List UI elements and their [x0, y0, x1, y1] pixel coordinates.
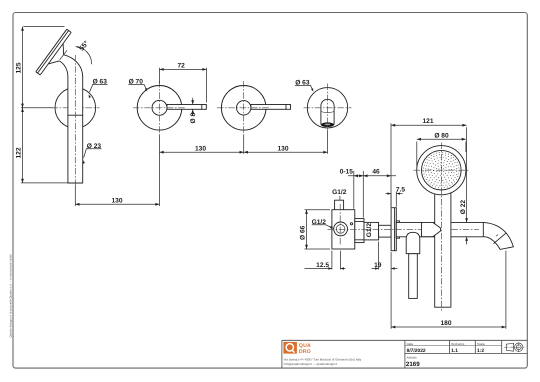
dimension Ø8 (lever bar): [190, 98, 197, 124]
dimension Ø80 (head): [417, 138, 466, 168]
label Ø70 with leader: [128, 79, 147, 92]
copyright note (vertical): [8, 254, 12, 337]
extension line middle (holder center): [21, 107, 53, 109]
shower head spray nozzle dots: [423, 152, 459, 188]
svg-text:0-15: 0-15: [340, 168, 354, 175]
dimension line 125: [21, 27, 24, 108]
label 46: [372, 168, 380, 175]
svg-text:122: 122: [15, 147, 22, 158]
centerline vertical pipe1: [74, 55, 76, 186]
head centerline horizontal: [414, 169, 470, 171]
wall bracket escutcheon Ø63 (circle): [55, 88, 96, 129]
svg-text:Scala: Scala: [477, 342, 485, 346]
extension flange up: [362, 171, 364, 218]
label 130 (a): [195, 146, 206, 153]
wall escutcheon plate (side): [391, 208, 396, 251]
diverter knob below pipe: [406, 232, 420, 298]
svg-text:46: 46: [372, 168, 380, 175]
svg-text:G1/2: G1/2: [332, 189, 347, 196]
label 0-15: [340, 168, 354, 175]
hand shower handle pipe Ø23: [68, 76, 83, 183]
valve handle escutcheon Ø70 (right): [221, 86, 266, 131]
label 122: [15, 147, 22, 158]
dimension line 180: [391, 326, 506, 329]
small screw circle on body: [350, 223, 352, 225]
svg-text:Data: Data: [407, 342, 414, 346]
dimension Ø22 (pipe): [460, 200, 468, 245]
dimension 12.5: [305, 251, 346, 270]
hand shower handle grip (side view): [435, 193, 451, 308]
svg-text:Ø 80: Ø 80: [434, 132, 449, 139]
label 55°: [78, 40, 90, 53]
dimension Ø66 (body/escutcheon): [299, 210, 330, 249]
label Ø23 with leader (handle): [83, 143, 102, 164]
label 121: [422, 118, 433, 125]
svg-text:Ø 8: Ø 8: [190, 113, 197, 124]
head and handle centerline: [441, 143, 443, 312]
shower head back cone: [48, 44, 63, 64]
svg-text:12.5: 12.5: [316, 262, 329, 269]
label G1/2 with leader (side inlet): [312, 219, 334, 229]
svg-text:info@quadrodesign.it — quadr: info@quadrodesign.it — quadrodesign.it: [284, 362, 338, 366]
logo text QUA DRO: [299, 343, 311, 355]
label Ø63 with leader (holder): [89, 79, 108, 98]
lever handle bar (right valve): [251, 105, 291, 110]
label 180: [440, 320, 451, 327]
connection sleeve: [379, 225, 392, 237]
label 125: [15, 62, 22, 73]
svg-text:180: 180: [440, 320, 451, 327]
label 72: [178, 63, 186, 70]
svg-text:Revisione: Revisione: [451, 342, 465, 346]
concealed valve body (side view): [332, 210, 355, 249]
svg-text:G1/2: G1/2: [366, 223, 373, 238]
extension body right face up: [353, 171, 355, 209]
angle dimension arc 55°: [60, 46, 92, 64]
dimension line 130 (holder to handle): [75, 203, 159, 206]
body inlet circle G1/2 (side face): [334, 222, 348, 236]
svg-text:1:2: 1:2: [477, 348, 484, 354]
extension spout tip down: [505, 251, 507, 329]
centerline horizontal circle1: [52, 107, 100, 109]
svg-text:7.5: 7.5: [396, 187, 405, 194]
spout joint line (vertical): [482, 222, 484, 236]
extension line bottom (handle end): [21, 182, 68, 184]
svg-text:125: 125: [15, 62, 22, 73]
holder neck and elbow (curved pipe): [59, 55, 82, 77]
dimension line 130 (handle to handle): [160, 151, 244, 154]
title block borders: [282, 340, 527, 368]
label 130 (c): [112, 198, 123, 205]
pipe collar at wall plate: [396, 221, 399, 238]
svg-text:2169: 2169: [406, 361, 420, 368]
hand shower head plate (front view, tilted disc): [36, 29, 71, 75]
label 12.5: [316, 262, 329, 269]
spout pipe and curved spout outline: [396, 222, 513, 249]
extension pipe1 down: [74, 186, 76, 207]
label Ø63 with leader (spout): [295, 80, 313, 92]
extension circle2 down: [159, 135, 161, 207]
logo QUADRO orange square: [283, 342, 297, 354]
svg-text:8/7/2022: 8/7/2022: [407, 348, 426, 354]
label 130 (b): [278, 146, 289, 153]
extension circle4 down: [327, 131, 329, 154]
title block headers: [407, 342, 485, 360]
centerlines circle2: [133, 81, 186, 135]
extension line at x=466.6 (head edge / pipe): [466, 127, 468, 222]
dimension 72 (lever length): [160, 68, 207, 103]
dimension line 122: [21, 108, 24, 183]
svg-text:Via Bonazzi 44 40057 San Maur: Via Bonazzi 44 40057 San Maurizio di Gra…: [284, 357, 362, 361]
svg-text:130: 130: [278, 146, 289, 153]
svg-text:121: 121: [422, 118, 433, 125]
extension wall plate down: [390, 252, 392, 329]
svg-text:1.1: 1.1: [451, 348, 458, 354]
svg-text:DRO: DRO: [299, 349, 311, 355]
svg-text:Ø 22: Ø 22: [460, 200, 467, 215]
label 7.5: [396, 187, 405, 194]
top inlet port G1/2: [335, 196, 344, 210]
svg-text:130: 130: [195, 146, 206, 153]
dimension 7.5 (plate thickness): [386, 192, 403, 207]
svg-text:130: 130: [112, 198, 123, 205]
label G1/2 (top port): [332, 189, 347, 196]
dimension 121 (wall to head): [391, 124, 467, 127]
first-angle projection symbol: [504, 342, 524, 352]
dimension 19: [372, 242, 398, 270]
svg-text:Questo disegno è di proprietà: Questo disegno è di proprietà Quadro s.r…: [8, 254, 12, 337]
centerlines circle4: [304, 84, 352, 131]
label Ø80: [434, 132, 449, 139]
centerlines circle3: [217, 81, 271, 135]
svg-text:Articolo: Articolo: [407, 356, 417, 360]
extension circle3 down: [243, 135, 245, 154]
label 19: [374, 262, 382, 269]
dimension line 0-15 and 46: [348, 174, 396, 177]
pipe centerline horizontal: [328, 228, 480, 230]
holder dock bullet on pipe: [422, 222, 441, 236]
svg-text:Ø 66: Ø 66: [299, 225, 306, 240]
valve handle escutcheon Ø70 (left): [137, 86, 182, 131]
lever handle bar (left valve): [167, 105, 206, 110]
extension wall line (long): [390, 123, 392, 207]
spout tube front (stadium shape): [321, 99, 334, 124]
svg-text:72: 72: [178, 63, 186, 70]
spout outlet opening (dark ellipse): [321, 122, 334, 127]
cartridge flange ring: [355, 219, 364, 243]
threaded nipple G1/2: [364, 222, 379, 240]
spout escutcheon Ø63 (front view): [307, 88, 347, 128]
body centerline vertical: [339, 204, 341, 246]
title block values: [406, 348, 484, 368]
dimension line 130 (handle to spout): [244, 151, 328, 154]
spout joint line (diagonal): [494, 233, 506, 243]
svg-text:19: 19: [374, 262, 382, 269]
extension line top (head top): [23, 26, 64, 28]
address text: [284, 357, 362, 366]
hand shower head Ø80 (circle): [417, 146, 466, 195]
